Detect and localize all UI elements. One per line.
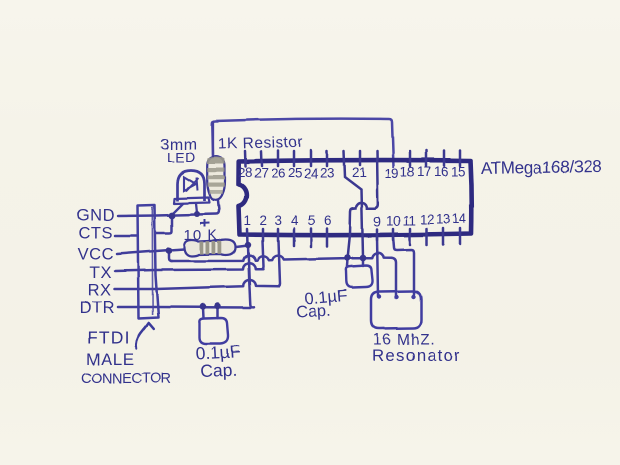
svg-text:12: 12 (420, 212, 434, 227)
wire pin2 lead (261, 241, 264, 269)
wire RX row (115, 280, 279, 289)
wire VCC-GND bus with humps (171, 253, 396, 296)
wire DTR row (118, 306, 250, 309)
svg-text:Cap.: Cap. (200, 360, 238, 381)
svg-text:DTR: DTR (80, 299, 115, 317)
node VCC dot (166, 247, 173, 254)
wire C1 lead right (217, 307, 220, 318)
FTDI arrow (136, 326, 147, 349)
IC bottom pin ticks (247, 228, 460, 247)
label plus sign (200, 220, 210, 228)
resistor R1 1K lead top (212, 122, 214, 155)
svg-text:RX: RX (88, 282, 112, 300)
svg-text:24: 24 (304, 166, 319, 181)
pin 20 inside wire W2 (348, 151, 378, 256)
LED D1 symbol bar (197, 178, 198, 191)
svg-text:6: 6 (324, 213, 331, 228)
svg-text:5: 5 (308, 213, 315, 228)
wire top loop pin19 to R1 (212, 119, 393, 167)
node DTR cap left dot (200, 303, 206, 309)
svg-text:3: 3 (275, 213, 282, 228)
resistor R2 10K body (184, 240, 236, 257)
svg-text:VCC: VCC (78, 246, 114, 264)
wire pin10 jog to resonator right lead (393, 236, 414, 294)
svg-text:16: 16 (434, 164, 448, 179)
connector pin labels (77, 207, 115, 318)
svg-text:MALE: MALE (86, 350, 135, 369)
svg-text:Resonator: Resonator (372, 346, 461, 365)
svg-text:27: 27 (254, 166, 268, 181)
svg-text:GND: GND (77, 207, 115, 225)
IC bottom pin numbers (244, 211, 467, 229)
wire GND row (118, 201, 219, 216)
svg-text:10: 10 (386, 214, 400, 229)
LED D1 leg left (173, 204, 183, 214)
capacitor C2 body (346, 266, 373, 288)
wire C2 lead left (346, 259, 349, 266)
svg-text:15: 15 (451, 164, 465, 179)
wire pin1 lead vertical (248, 245, 254, 307)
wire pin9 lead to resonator (377, 236, 378, 296)
wire CTS tie to GND (156, 217, 172, 233)
node LED anode dot (194, 211, 200, 217)
FTDI connector J1 outline (138, 205, 159, 319)
svg-text:ATMega168/328: ATMega168/328 (481, 157, 602, 178)
wire 10K right lead (236, 246, 248, 248)
wire C1 lead left (202, 308, 205, 319)
svg-text:14: 14 (452, 211, 467, 226)
svg-text:26: 26 (271, 166, 285, 181)
LED D1 symbol arrow (186, 178, 199, 192)
junction dots (166, 211, 367, 310)
svg-text:4: 4 (291, 213, 299, 228)
svg-text:23: 23 (320, 166, 334, 181)
svg-text:1K Resistor: 1K Resistor (218, 134, 304, 153)
capacitor C1 body (199, 318, 228, 344)
wire pin3 lead (277, 241, 280, 286)
FTDI connector J1 inner edge (151, 207, 153, 315)
svg-text:CONNECTOR: CONNECTOR (81, 371, 171, 387)
svg-text:13: 13 (436, 212, 450, 227)
svg-text:9: 9 (374, 214, 381, 229)
pin 22 tick + inside wire W1 (344, 151, 363, 257)
wire CTS row stub (115, 235, 137, 238)
svg-text:21: 21 (352, 165, 366, 180)
IC top pin numbers (238, 164, 465, 181)
node DTR cap right dot (215, 303, 221, 309)
svg-text:18: 18 (400, 164, 414, 179)
LED D1 arch (178, 171, 205, 202)
resonator lead tips (377, 294, 381, 298)
wire VCC drop to bus (169, 251, 172, 261)
wire VCC row (117, 249, 184, 254)
svg-text:Cap.: Cap. (295, 302, 331, 322)
LED D1 flange (174, 198, 210, 204)
svg-text:17: 17 (417, 164, 431, 179)
svg-text:10 K: 10 K (184, 227, 219, 244)
svg-text:11: 11 (403, 213, 416, 228)
wire TX row (115, 263, 264, 271)
svg-text:19: 19 (385, 166, 399, 181)
resistor R1 1K body (207, 157, 225, 201)
node GND-LED dot (169, 212, 176, 219)
IC U1 ATMega outline (239, 160, 472, 235)
resistor R2 bands (200, 241, 222, 254)
svg-text:LED: LED (167, 149, 196, 165)
resistor R1 bands (207, 157, 225, 194)
resonator Y1 body (371, 291, 421, 329)
svg-text:FTDI: FTDI (87, 328, 131, 348)
svg-text:28: 28 (238, 165, 252, 180)
node GND pin8 dot (360, 255, 367, 262)
svg-text:TX: TX (90, 264, 112, 282)
node pin1 dot (245, 242, 251, 248)
LED D1 leg right (196, 204, 197, 214)
LED D1 symbol triangle (184, 177, 196, 191)
svg-text:1: 1 (244, 213, 251, 228)
wire C2 lead right (362, 260, 365, 266)
svg-text:2: 2 (260, 213, 267, 228)
svg-text:CTS: CTS (79, 225, 114, 243)
node VCC pin7 dot (344, 254, 351, 261)
svg-text:25: 25 (288, 166, 302, 181)
IC top pin ticks (245, 151, 460, 258)
